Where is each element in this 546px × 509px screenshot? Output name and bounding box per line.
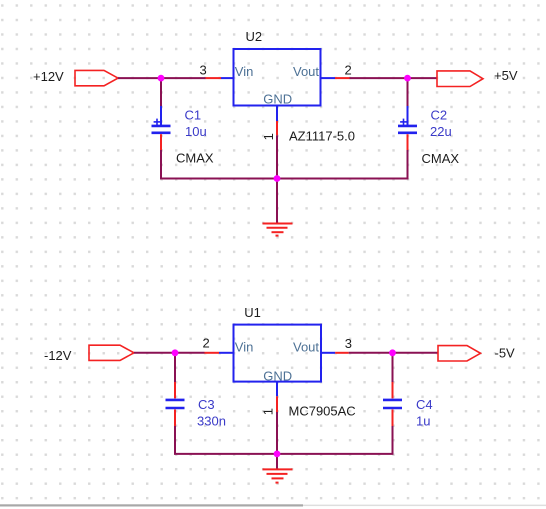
svg-text:Vin: Vin [235, 339, 254, 354]
wire node A down to C1 [160, 78, 162, 106]
U1 pin 2 blue stub [219, 352, 234, 354]
svg-text:330n: 330n [197, 413, 226, 428]
svg-text:C1: C1 [185, 108, 202, 123]
regulator U1 body [234, 325, 322, 382]
wire node B down to C2 [407, 78, 409, 106]
wire node F to ground 2 [276, 454, 278, 469]
node C junction [274, 175, 281, 182]
svg-text:C2: C2 [431, 108, 448, 123]
U2 pin 3 blue stub [221, 77, 234, 79]
svg-text:CMAX: CMAX [176, 151, 214, 166]
svg-text:+5V: +5V [494, 68, 518, 83]
U2 GND pin red segment [276, 121, 278, 135]
svg-text:MC7905AC: MC7905AC [289, 404, 356, 419]
wire node E down to C4 [392, 353, 394, 382]
ground 2 [263, 469, 293, 482]
svg-text:10u: 10u [185, 124, 207, 139]
svg-text:GND: GND [263, 91, 292, 106]
wire U2 GND pin to node C [276, 135, 278, 178]
node B junction [404, 75, 411, 82]
wire node B to port +5V [408, 77, 438, 79]
svg-text:CMAX: CMAX [422, 151, 460, 166]
svg-text:AZ1117-5.0: AZ1117-5.0 [289, 129, 355, 144]
svg-text:C4: C4 [416, 397, 433, 412]
wire port+12V to node A [118, 77, 161, 79]
U1 pin 3 red segment [335, 352, 349, 354]
capacitor C4 [383, 382, 402, 426]
svg-text:22u: 22u [430, 124, 452, 139]
svg-text:3: 3 [345, 336, 352, 351]
wire C3 down to gnd rail [174, 426, 176, 454]
wire node C to ground 1 [276, 179, 278, 224]
svg-text:1u: 1u [416, 413, 430, 428]
U1 pin 2 red segment [205, 352, 220, 354]
svg-text:-5V: -5V [495, 345, 516, 360]
svg-text:-12V: -12V [44, 348, 72, 363]
node E junction [389, 349, 396, 356]
capacitor C3 [166, 382, 185, 426]
wire node A to U2 pin 3 [161, 77, 206, 79]
wire node D to U1 pin 2 [175, 352, 205, 354]
svg-text:2: 2 [203, 336, 210, 351]
svg-text:+12V: +12V [33, 69, 64, 84]
gnd rail bottom circuit [174, 453, 394, 455]
regulator U2 body [234, 49, 321, 106]
wire node D down to C3 [174, 353, 176, 382]
svg-text:2: 2 [345, 62, 352, 77]
wire C2 down to gnd rail [407, 150, 409, 179]
port +5V [437, 71, 483, 87]
window bottom edge left [0, 504, 303, 506]
ground 1 [263, 224, 293, 236]
wire U1 pin 3 to node E [349, 352, 393, 354]
U2 GND pin blue stub [276, 106, 278, 122]
window bottom edge right [303, 505, 546, 507]
svg-text:U2: U2 [246, 29, 263, 44]
U2 pin 2 red segment [335, 77, 350, 79]
capacitor C1 [152, 106, 171, 150]
svg-text:Vout: Vout [293, 339, 319, 354]
node D junction [172, 349, 179, 356]
svg-text:Vin: Vin [235, 64, 254, 79]
port -12V [89, 345, 134, 360]
wire C4 down to gnd rail [392, 426, 394, 454]
wire U2 pin 2 to node B [350, 77, 408, 79]
svg-text:1: 1 [261, 408, 276, 415]
U2 pin 3 red segment [206, 77, 222, 79]
svg-text:1: 1 [261, 133, 276, 140]
U2 pin 2 blue stub [321, 77, 336, 79]
svg-text:C3: C3 [198, 397, 215, 412]
wire port-12V to node D [134, 352, 175, 354]
U1 GND pin red segment [276, 396, 278, 412]
gnd rail top circuit [160, 178, 409, 180]
wire U1 GND pin to node F [276, 412, 278, 454]
U1 pin 3 blue stub [321, 352, 335, 354]
svg-text:Vout: Vout [293, 64, 319, 79]
svg-text:3: 3 [200, 63, 207, 78]
port +12V [75, 70, 118, 85]
wire node E to port -5V [393, 352, 439, 354]
capacitor C2 [398, 106, 417, 150]
node A junction [158, 75, 165, 82]
port -5V [438, 346, 481, 361]
U1 GND pin blue stub [276, 382, 278, 396]
svg-text:GND: GND [263, 369, 292, 384]
node F junction [274, 451, 281, 458]
wire C1 down to gnd rail [160, 150, 162, 179]
svg-text:U1: U1 [244, 305, 261, 320]
